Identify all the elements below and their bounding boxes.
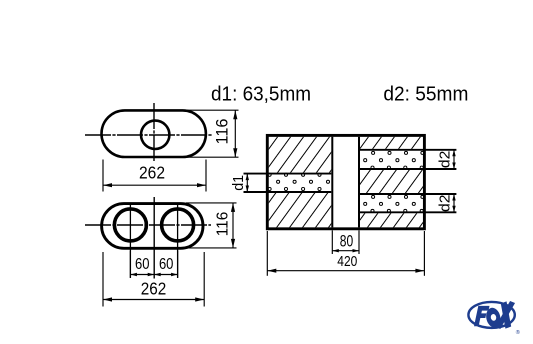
pipe d2 top-band lower line (section view) [360, 168, 456, 170]
dim 262 dimension line (top view) [103, 184, 206, 186]
svg-text:262: 262 [141, 278, 167, 298]
hatch area left-bottom (section view) [269, 193, 332, 228]
dim 60-60 dimension line [130, 274, 177, 276]
dim 262 right extension line (top view) [205, 160, 207, 192]
pipe d1 top line (section view) [244, 173, 332, 175]
dim 116 dimension line (top view) [234, 110, 236, 157]
perforation dots d2 bottom band row1 [372, 195, 424, 198]
pipe circle d1 (top view) [141, 121, 169, 149]
perforation dots d1 band row3 [268, 187, 321, 190]
perforation dots d2 top band row1 [372, 151, 424, 154]
pipe axis vertical left (bottom view) [129, 205, 131, 278]
dim 116 top extension line (top view) [186, 109, 239, 111]
pipe circle left (bottom view) [114, 209, 146, 241]
FOX logo letters FOX [474, 302, 514, 329]
dim 262 right extension line (bottom view) [203, 252, 205, 307]
perforation dots d1 band row1 [268, 173, 321, 176]
perforation dots d2 top band row2 [364, 159, 416, 162]
dim 262 left extension line (top view) [102, 160, 104, 192]
pipe circle right (bottom view) [162, 209, 194, 241]
dim 420 left extension line [266, 231, 268, 276]
svg-text:60: 60 [159, 256, 174, 273]
pipe d1 bottom line (section view) [244, 191, 332, 193]
pipe d2 top-band upper line (section view) [360, 149, 456, 151]
svg-text:d2: 55mm: d2: 55mm [383, 83, 468, 105]
muffler body rectangle (section view) [267, 135, 424, 228]
svg-text:116: 116 [213, 119, 231, 145]
centerline horizontal (bottom view) [85, 224, 211, 226]
chamber separator right (section view) [358, 137, 360, 228]
oval body outline (bottom view) [102, 204, 203, 249]
centerline vertical (top view) [153, 103, 155, 162]
dim d2 top dimension line (section view) [453, 150, 455, 169]
svg-text:116: 116 [215, 211, 232, 236]
dim 262 dimension line (bottom view) [103, 299, 204, 301]
dim 420 dimension line [267, 270, 424, 272]
dim 116 top extension line (bottom view) [186, 202, 237, 204]
FOX logo ellipse [468, 302, 514, 328]
svg-text:d2: d2 [437, 194, 454, 212]
dim 80 dimension line [332, 250, 359, 252]
pipe d2 bottom-band upper line (section view) [360, 193, 456, 195]
chamber separator left (section view) [331, 137, 333, 228]
dim 60 right extension line [177, 251, 179, 278]
pipe d2 bottom-band lower line (section view) [360, 211, 456, 213]
svg-text:420: 420 [337, 253, 357, 270]
dim 116 dimension line (bottom view) [232, 203, 234, 248]
dim d2 bottom dimension line (section view) [453, 194, 455, 212]
dim 420 right extension line [423, 231, 425, 276]
dim 80 left extension line [331, 230, 333, 254]
hatch area right-bottom (section view) [360, 213, 423, 227]
hatch area right-top (section view) [360, 137, 423, 149]
hatch area left-top (section view) [269, 137, 332, 173]
dim d1 dimension line (section view) [246, 174, 248, 192]
centerline horizontal (top view) [85, 134, 213, 136]
svg-text:262: 262 [139, 162, 165, 182]
svg-text:®: ® [516, 329, 520, 336]
dim 262 left extension line (bottom view) [102, 252, 104, 307]
perforation dots d1 band row2 [277, 180, 330, 183]
dim 116 bottom extension line (top view) [186, 156, 239, 158]
svg-text:80: 80 [340, 232, 353, 251]
dim 60 left extension line [129, 251, 131, 278]
svg-text:d1: d1 [230, 175, 247, 191]
svg-text:d2: d2 [437, 151, 454, 169]
oval body outline (top view) [102, 110, 206, 157]
dim 116 bottom extension line (bottom view) [186, 247, 237, 249]
svg-text:60: 60 [135, 256, 150, 273]
perforation dots d2 top band row3 [371, 166, 423, 169]
svg-text:d1: 63,5mm: d1: 63,5mm [211, 83, 311, 105]
dim 80 right extension line [358, 230, 360, 254]
perforation dots d2 bottom band row2 [364, 202, 416, 205]
hatch area right-middle (section view) [360, 170, 423, 193]
centerline vertical middle (bottom view) [153, 197, 155, 279]
pipe axis vertical right (bottom view) [177, 205, 179, 278]
perforation dots d2 bottom band row3 [371, 209, 423, 212]
